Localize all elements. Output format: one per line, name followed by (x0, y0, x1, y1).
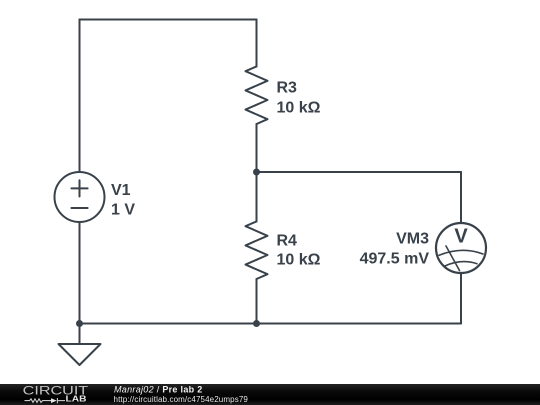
wire: mid rail to voltmeter (257, 171, 462, 173)
svg-text:1 V: 1 V (111, 202, 135, 219)
wire: R4 top lead (256, 172, 258, 221)
svg-text:VM3: VM3 (396, 231, 429, 248)
wire: R3 bottom lead (256, 124, 258, 172)
svg-text:497.5 mV: 497.5 mV (360, 251, 430, 268)
svg-text:R4: R4 (277, 233, 298, 250)
CircuitLab logo (23, 383, 89, 403)
footer bar (0, 384, 540, 405)
svg-text:http://circuitlab.com/c4754e2u: http://circuitlab.com/c4754e2umps79 (114, 395, 249, 404)
wire: VM3 top lead (460, 172, 462, 223)
voltmeter VM3 (436, 223, 486, 273)
node: ground junction (76, 320, 83, 327)
svg-text:LAB: LAB (66, 395, 87, 404)
resistor R3 (246, 66, 268, 124)
ground (59, 324, 101, 366)
wire: R4 bottom lead (256, 279, 258, 324)
voltage source V1 (55, 172, 105, 222)
wire: R3 top lead (256, 20, 258, 67)
wire: V1 bottom lead (79, 222, 81, 324)
wire: bottom rail (80, 323, 462, 325)
wire: VM3 bottom lead (460, 273, 462, 324)
svg-text:Manraj02 / Pre lab 2: Manraj02 / Pre lab 2 (114, 384, 203, 394)
svg-text:10 kΩ: 10 kΩ (277, 252, 321, 269)
svg-text:R3: R3 (277, 80, 298, 97)
wire: V1 top lead (79, 20, 81, 173)
svg-text:V1: V1 (111, 182, 131, 199)
node: bottom rail junction (253, 320, 260, 327)
wire: top rail (80, 19, 257, 21)
node: R3/R4/VM junction (253, 169, 260, 176)
svg-text:10 kΩ: 10 kΩ (277, 100, 321, 117)
resistor R4 (246, 221, 268, 279)
svg-text:V: V (454, 226, 468, 248)
